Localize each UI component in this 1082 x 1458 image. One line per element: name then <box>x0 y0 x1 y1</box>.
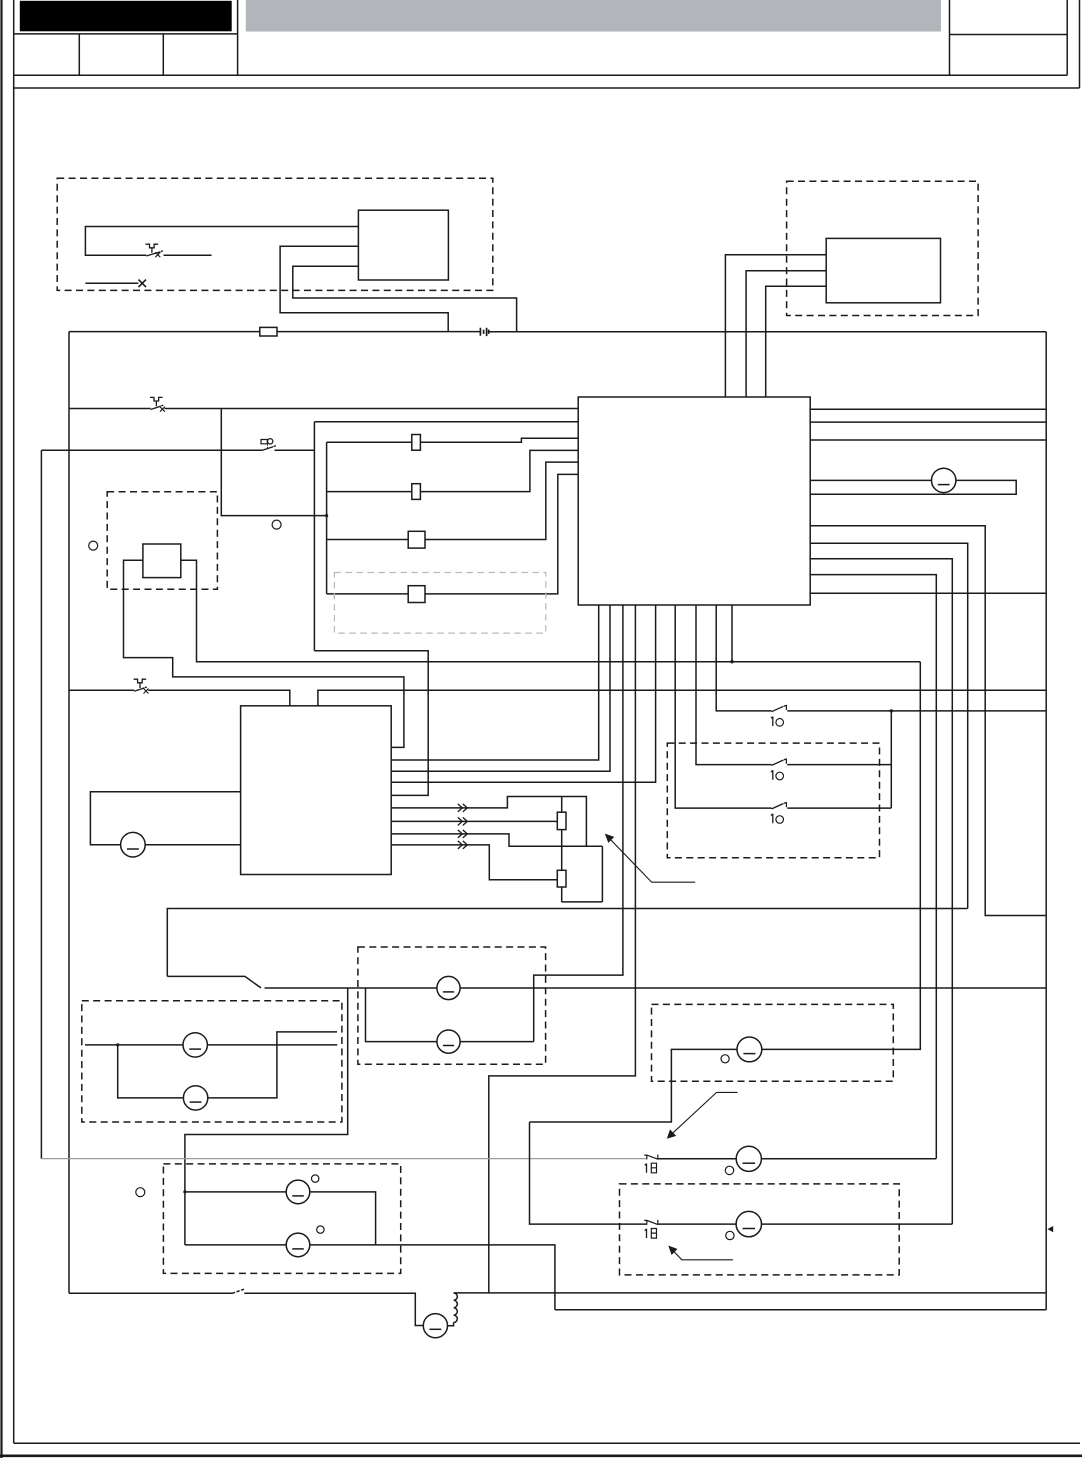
fuse FL1 <box>412 435 421 451</box>
annotation arrow to switch SP1 <box>672 1092 738 1134</box>
switch SW3 tick <box>785 802 787 807</box>
connector circle DS10 <box>725 1166 733 1174</box>
fuse FL2 <box>412 484 421 500</box>
switch SW1 label 1 <box>771 717 773 727</box>
wire frame top (header bottom) <box>14 87 1080 89</box>
dashed enclosure night lamps <box>163 1164 400 1274</box>
door switch S1 stem <box>267 444 269 448</box>
thermostat TH2 x-mark <box>144 689 149 694</box>
inductor coil windings <box>454 1293 458 1323</box>
SECTION: main control board U1 and right side wiring <box>578 397 1046 1224</box>
node title bar gray <box>246 0 941 32</box>
node title bar black <box>20 1 232 32</box>
thermostat TH0 x-mark <box>155 252 160 257</box>
door switch S1 plunger circle <box>268 439 273 444</box>
wire TH2 to module pin <box>148 690 290 706</box>
wire sheet left border <box>0 0 2 1458</box>
wire riser to board x623 <box>534 605 623 1042</box>
arrowhead marker on right edge <box>1047 1226 1053 1232</box>
wire console lamp2 loop <box>366 988 437 1042</box>
thermostat TH1 wire left <box>69 408 151 410</box>
chevron connector on pin1 <box>458 804 468 812</box>
wire drum lamp left drop <box>530 1049 738 1122</box>
thermostat TH2 bracket <box>134 679 147 688</box>
wire U1 pin y574 down to gray bus <box>810 575 936 1159</box>
wire sheet bottom border <box>0 1455 1082 1458</box>
wire SW1 to right edge <box>787 710 1046 712</box>
wire TH1 to board <box>165 408 579 410</box>
wire A1 upper-left loop <box>85 227 358 256</box>
wire fuse block inner vertical <box>326 442 328 594</box>
wire night lamp top row <box>185 1191 286 1193</box>
door switch S1 plunger box <box>261 440 267 444</box>
connector circle DS11 <box>726 1231 734 1239</box>
lamp DS10 circle <box>736 1146 761 1171</box>
wire B1 pin1 to board <box>725 255 826 397</box>
wire module pin2 long line to right edge <box>318 690 1046 706</box>
wire fuse row2 <box>327 450 579 491</box>
junction dot rear lamp <box>116 1043 119 1046</box>
thermostat TH0 blade <box>146 251 163 256</box>
dashed enclosure cord box <box>787 181 979 315</box>
lamp DS8 dash <box>292 1195 304 1197</box>
wire B1 pin2 to board <box>746 271 826 397</box>
wire pilot row1 lamp to riser x936 <box>761 1158 936 1160</box>
wire header row top line <box>14 33 238 35</box>
lamp DS2 circle <box>121 832 146 857</box>
annotation arrow to switch SP2 <box>672 1250 733 1260</box>
switch SW3 circle <box>776 816 784 824</box>
wire thermal fuse TF2 vertical <box>561 846 563 902</box>
thermostat TH2 wire from left edge <box>69 689 134 691</box>
lamp DS1 dash <box>938 484 950 486</box>
lamp DS9 circle <box>286 1233 310 1257</box>
component box B1 terminal block <box>826 238 940 302</box>
wire A1 pin to bus (inner) <box>293 266 517 332</box>
wire A2 left loop down <box>124 560 404 747</box>
wire rear lamp bottom right riser <box>208 1032 337 1098</box>
component box A2 <box>143 544 181 578</box>
switch SP1 label 18 <box>645 1164 647 1173</box>
wire coil top to bottom bus right segment <box>454 1292 1047 1294</box>
switch SW1 blade <box>772 705 787 712</box>
dashed enclosure rear lamps <box>82 1001 342 1122</box>
wire U1 right pin2 to right edge <box>810 421 1046 423</box>
switch SW2 circle <box>776 772 784 780</box>
wire motor to coil <box>448 1323 454 1326</box>
fuse F1 on top bus <box>260 327 277 336</box>
wire header cell divider 2 <box>162 34 164 75</box>
connector circle on tap wire <box>272 520 281 529</box>
lamp DS11 dash <box>743 1228 756 1230</box>
component box U1 control board <box>578 397 810 605</box>
wire fuse block top to board <box>314 421 578 423</box>
wire module chevron pin4 to fuse TF2 <box>391 845 557 880</box>
lamp DS7 circle <box>183 1086 207 1110</box>
wire riser to pilot row2 <box>530 1122 647 1224</box>
SECTION: lamp clusters <box>82 605 1046 1310</box>
wire bottom bus left segment <box>69 1292 232 1294</box>
lamp DS2 dash <box>127 848 139 850</box>
wire board drop x635 long loop <box>489 605 636 1293</box>
connector circle night cluster <box>136 1188 145 1197</box>
switch SW3 label 1 <box>771 814 773 824</box>
wire module chevron pin3 <box>391 834 602 846</box>
dashed enclosure console lamps <box>358 947 546 1064</box>
wire module left pin loop <box>90 792 240 845</box>
wire frame bottom line <box>14 1442 1080 1444</box>
wire header row bottom line <box>14 74 1068 76</box>
switch blade on bottom bus <box>232 1289 244 1293</box>
wire B1 pin3 to board <box>766 286 827 397</box>
wire drum lamp row <box>762 662 921 1050</box>
lamp DS7 dash <box>190 1101 202 1103</box>
wire module pin y760 to board <box>391 605 599 760</box>
wire top bus fuse to connector <box>277 331 480 333</box>
SECTION: bottom pilot lamp rows <box>41 450 952 1275</box>
dashed enclosure relay box <box>667 743 879 858</box>
wire lamp DS2 to module <box>145 844 240 846</box>
wire SW3 to common <box>787 807 891 809</box>
wire bottom bus to motor drop <box>244 1293 423 1325</box>
thermostat TH1 bracket <box>150 397 163 406</box>
motor M1 dash <box>430 1328 442 1330</box>
lamp DS1 circle <box>932 468 956 492</box>
thermostat TH1 blade <box>151 405 164 409</box>
lamp DS6 circle <box>183 1033 207 1057</box>
wire night lamp bottom out to return <box>310 1245 555 1310</box>
wire pilot row1 to lamp <box>658 1158 736 1160</box>
wire header cell divider 1 <box>78 34 80 75</box>
junction dot relay common <box>890 709 893 712</box>
SECTION: left sensor cluster and fuse block <box>41 397 578 795</box>
wire lower return bus y=1310 <box>555 1309 1046 1311</box>
wire board drop x732 to lamp feed bus <box>731 605 733 662</box>
wire fuse row1 <box>327 438 579 442</box>
wire module pin y782 to board drop x655 <box>391 605 655 782</box>
x-mark terminal <box>139 280 147 288</box>
switch SP1 blade <box>644 1155 658 1160</box>
wire TH0 stub <box>164 254 212 256</box>
junction dot lamp feed <box>730 660 733 663</box>
lamp DS9 dash <box>292 1248 304 1250</box>
wire U1 right pin3 to right edge <box>810 439 1046 441</box>
lamp DS4 dash <box>443 1045 454 1047</box>
component box M2 timer module <box>241 706 392 875</box>
chevron connector on pin3 <box>458 830 468 838</box>
wire fuse block bottom jog to module area <box>314 651 428 796</box>
component box A1 <box>358 210 448 280</box>
wire top bus y=331.6 left of fuse <box>69 331 260 333</box>
wire board drop x716 to switch SW1 <box>716 605 771 711</box>
switch SW2 tick <box>785 759 787 764</box>
dashed enclosure heater box <box>57 178 493 290</box>
switch SW3 blade <box>772 802 787 809</box>
wire rear lamp parallel loop <box>118 1045 184 1098</box>
wire U1 pin y593 to right edge <box>810 592 1046 594</box>
fuse FS3 square <box>408 531 425 548</box>
wire U1 pin y558 down to pilot lamp 2 <box>810 559 952 1224</box>
wire A2 right loop down to long bus <box>181 560 921 661</box>
arrowhead fuse cluster <box>605 834 615 843</box>
thermal fuse TF2 <box>557 870 566 887</box>
wire relay common vertical <box>890 711 892 808</box>
lamp DS4 circle <box>437 1030 460 1053</box>
arrowhead SP2 <box>668 1246 677 1256</box>
wire module chevron pin1 <box>391 797 586 847</box>
lamp DS6 dash <box>189 1048 201 1050</box>
SECTION: upper-left heater cluster <box>57 178 516 332</box>
wire header right vertical <box>1079 0 1081 88</box>
wire pilot row2 to lamp <box>658 1223 736 1225</box>
wire A1 pin to bus (outer) <box>280 246 448 331</box>
switch SW1 tick <box>785 705 787 710</box>
connector circle left <box>89 541 98 550</box>
wire top bus right of connector <box>489 331 1046 333</box>
wire console lamp2 right to riser <box>460 1041 534 1043</box>
wire left cabinet edge <box>68 332 70 1294</box>
wire x-terminated stub <box>85 282 138 284</box>
fuse FS4 square <box>408 586 425 603</box>
thermal fuse TF1 <box>557 812 566 829</box>
wire thermal fuse TF1 vertical <box>561 797 563 847</box>
wire fuse row4 <box>327 474 579 594</box>
wire SW2 to common <box>787 764 891 766</box>
motor M1 circle <box>423 1314 447 1338</box>
lamp DS11 circle <box>736 1211 761 1236</box>
wire module chevron pin2 to fuse TF1 <box>391 820 557 822</box>
wire U1 pin y543 down to lamp feed <box>810 543 968 908</box>
wire feed from board y543 loop to left <box>167 909 967 977</box>
wire gray bus segment <box>41 1158 646 1160</box>
connector circle DS8 <box>312 1175 319 1182</box>
lamp DS3 circle <box>437 976 460 999</box>
wire night lamp top right drop <box>310 1192 376 1245</box>
wire U1 right pin1 to right edge <box>810 408 1046 410</box>
wire header right cell divider <box>950 34 1068 36</box>
wire header column right of black bar <box>237 0 239 75</box>
dashed enclosure drum lamp <box>652 1004 894 1081</box>
thermostat TH1 x-mark <box>160 407 165 412</box>
switch SP2 blade <box>644 1220 658 1225</box>
lamp DS8 circle <box>286 1180 310 1204</box>
wire tap down from TH1 line <box>221 409 326 516</box>
SECTION: timer module and its wiring <box>69 605 1046 902</box>
wire pilot row2 lamp to riser x952 <box>761 1223 952 1225</box>
wire night lamp bottom row <box>185 1244 286 1246</box>
wire module pin y771 to board <box>391 605 610 771</box>
thermostat TH2 blade <box>134 687 147 691</box>
switch SP2 label 18 <box>645 1229 647 1238</box>
wire door switch to fuse block <box>275 449 315 451</box>
wire board drop x675 to switch SW3 <box>675 605 771 808</box>
wire board drop x696 to switch SW2 <box>696 605 772 765</box>
wire header/frame left vertical <box>13 0 15 1443</box>
wire drop to night lamp cluster <box>185 988 348 1245</box>
door switch S1 blade <box>262 446 276 451</box>
wire rear lamp top row <box>85 1044 183 1046</box>
SECTION: selector loop small box <box>89 492 921 748</box>
SECTION: upper-right power cord cluster <box>725 181 978 397</box>
wire U1 lamp loop right <box>810 480 1016 494</box>
wire right cabinet edge <box>1045 332 1047 1310</box>
switch SW2 label 1 <box>771 770 773 780</box>
wire header right cell right edge <box>1066 0 1068 75</box>
wire U1 pin y526 to vertical <box>810 526 1046 916</box>
dashed enclosure pilot row2 <box>620 1184 900 1275</box>
wire U1 lamp loop top <box>810 479 931 481</box>
SECTION: main cabinet outline L1/N bus <box>69 327 1053 1337</box>
wire door circuit from x41 <box>41 449 262 451</box>
SECTION: right mid relay switches <box>667 605 1046 858</box>
wire TF2 bottom loop <box>562 846 603 902</box>
wire fuse block outer left vertical <box>313 422 315 651</box>
annotation arrow to fuse cluster <box>609 838 696 883</box>
wire left riser x41 <box>40 450 42 1158</box>
lamp DS5 circle <box>737 1037 762 1062</box>
lamp DS3 dash <box>443 991 454 993</box>
connector circle DS5 <box>721 1055 729 1063</box>
wire fuse row3 <box>327 462 579 539</box>
lamp DS10 dash <box>743 1162 756 1164</box>
dashed enclosure selector <box>107 492 217 590</box>
wire lamp bus y988 to right edge <box>265 987 1047 989</box>
wire header right cell left edge <box>949 0 951 75</box>
chevron connector on pin4 <box>458 841 468 849</box>
switch SP1 glyph box <box>651 1163 656 1173</box>
switch SP2 glyph box <box>651 1229 656 1239</box>
connector circle DS9 <box>317 1226 324 1233</box>
dashed gray enclosure around fuse row4 <box>334 573 545 634</box>
thermostat TH0 bracket <box>146 244 159 253</box>
lamp DS5 dash <box>743 1053 755 1055</box>
junction dot night lamp <box>183 1190 186 1193</box>
connector J1 bars <box>480 328 488 336</box>
wire slant switch run <box>167 976 261 988</box>
wire rear lamp top right to stub <box>207 1044 337 1046</box>
switch SW1 circle <box>776 719 784 727</box>
arrowhead SP1 <box>667 1129 676 1138</box>
junction dot tap wire end <box>325 514 328 517</box>
chevron connector on pin2 <box>458 817 468 825</box>
switch SW2 blade <box>772 759 787 766</box>
